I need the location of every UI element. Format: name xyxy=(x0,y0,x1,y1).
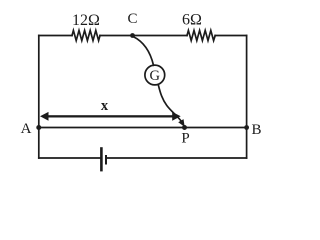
node P junction dot xyxy=(182,125,187,130)
svg-text:6Ω: 6Ω xyxy=(182,12,202,29)
svg-text:x: x xyxy=(101,98,109,114)
wire: curved lead from galvanometer to jockey P xyxy=(158,85,181,122)
wire: bottom edge left of battery xyxy=(39,157,100,159)
svg-text:12Ω: 12Ω xyxy=(72,12,100,29)
dimension arrow x (double-headed) xyxy=(40,112,181,121)
wire: slide wire A to B xyxy=(39,127,247,129)
svg-text:G: G xyxy=(150,68,161,84)
svg-text:B: B xyxy=(252,122,262,138)
node B junction dot xyxy=(244,125,249,130)
svg-text:P: P xyxy=(181,131,189,147)
galvanometer U1 circle xyxy=(145,65,165,85)
wire: right edge of loop xyxy=(246,36,248,159)
wire: top edge left segment xyxy=(39,35,72,37)
resistor R2 6ohm xyxy=(187,30,215,40)
resistor R1 12ohm xyxy=(72,30,100,40)
svg-text:A: A xyxy=(21,121,32,137)
wire: bottom edge right of battery xyxy=(107,157,247,159)
wire: top edge middle segment xyxy=(100,35,187,37)
node A junction dot xyxy=(36,125,41,130)
wire: top edge right segment xyxy=(215,35,246,37)
jockey arrowhead at P xyxy=(178,119,185,127)
node C junction dot xyxy=(130,33,135,38)
svg-text:C: C xyxy=(127,11,137,27)
battery B1 long plate xyxy=(100,147,103,171)
wire: left edge of loop xyxy=(38,36,40,159)
battery B1 short plate xyxy=(105,155,107,165)
wire: curved lead from node C to galvanometer xyxy=(133,37,154,66)
